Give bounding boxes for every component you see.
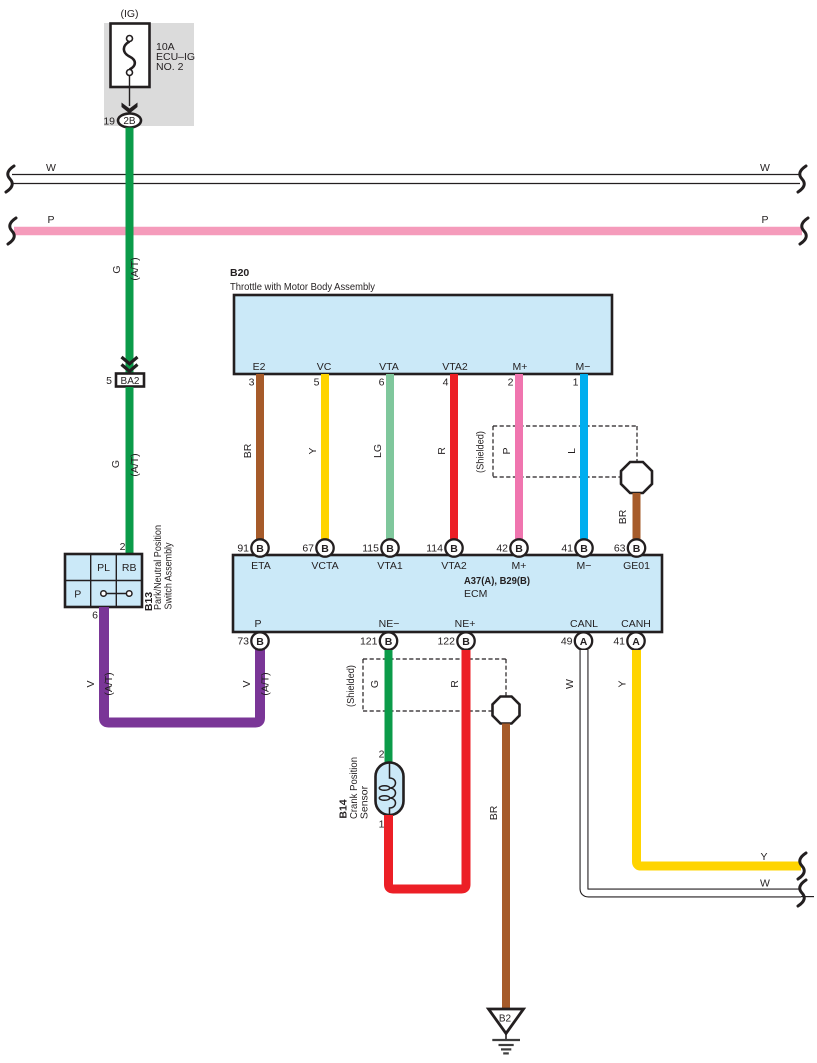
svg-text:(A/T): (A/T) (103, 672, 115, 695)
shield drain octagon (crank sensor) (493, 697, 520, 724)
svg-text:Y: Y (617, 680, 629, 687)
fuse 10A ECU-IG NO. 2 (111, 24, 196, 88)
svg-text:M−: M− (577, 560, 592, 572)
svg-text:PL: PL (97, 562, 110, 574)
svg-text:Y: Y (760, 851, 767, 863)
wire BR (E2-ETA) (242, 374, 260, 539)
wire W CANL right continuation (798, 880, 806, 906)
pin 121 NE- connector B (360, 632, 397, 649)
svg-text:VCTA: VCTA (311, 560, 338, 572)
svg-text:VTA2: VTA2 (441, 560, 467, 572)
wire L (M-) (566, 374, 584, 539)
svg-text:2: 2 (120, 541, 126, 553)
svg-text:E2: E2 (253, 361, 266, 373)
svg-text:CANL: CANL (570, 618, 598, 630)
svg-text:ETA: ETA (251, 560, 271, 572)
svg-text:B: B (386, 543, 394, 555)
pin 42 M+ connector B (496, 539, 527, 556)
pin 41 CANH connector A (613, 632, 644, 649)
svg-text:ECM: ECM (464, 588, 487, 600)
svg-text:B: B (256, 636, 264, 648)
bus P (pink) (14, 214, 802, 231)
svg-text:R: R (436, 447, 448, 455)
svg-text:A: A (580, 636, 588, 648)
wire W CANL (564, 650, 814, 897)
svg-text:P: P (501, 447, 513, 454)
fuse block shading (104, 23, 194, 126)
pin 91 ETA connector B (237, 539, 268, 556)
svg-text:NE+: NE+ (455, 618, 476, 630)
svg-text:A: A (632, 636, 640, 648)
svg-text:B20: B20 (230, 267, 249, 279)
svg-text:41: 41 (613, 636, 625, 648)
svg-text:(A/T): (A/T) (129, 257, 141, 280)
svg-text:V: V (85, 680, 97, 687)
svg-text:3: 3 (249, 377, 255, 389)
pin 49 CANL connector A (561, 632, 592, 649)
wire BR shield drain to GE01 (617, 493, 637, 539)
pin 67 VCTA connector B (302, 539, 333, 556)
svg-text:73: 73 (237, 636, 249, 648)
svg-text:GE01: GE01 (623, 560, 650, 572)
svg-text:W: W (760, 162, 770, 174)
svg-text:Throttle with Motor Body Assem: Throttle with Motor Body Assembly (230, 281, 376, 293)
svg-text:115: 115 (362, 543, 379, 555)
svg-text:M−: M− (576, 361, 591, 373)
wire LG (VTA-VTA1) (372, 374, 390, 539)
B20 pin numbers (249, 377, 579, 389)
svg-text:(Shielded): (Shielded) (345, 665, 357, 707)
svg-text:5: 5 (106, 375, 112, 387)
svg-text:49: 49 (561, 636, 573, 648)
shielded cable box (crank sensor) (345, 659, 506, 711)
ground B2 (489, 1009, 524, 1053)
svg-text:G: G (111, 265, 123, 273)
svg-text:NE−: NE− (379, 618, 400, 630)
svg-text:VTA1: VTA1 (377, 560, 403, 572)
bus W (top) (12, 162, 800, 184)
svg-text:91: 91 (237, 543, 249, 555)
svg-text:B: B (633, 543, 641, 555)
svg-text:114: 114 (426, 543, 443, 555)
wire R (VTA2-VTA2) (436, 374, 454, 539)
pin 63 GE01 connector B (614, 539, 645, 556)
svg-text:BR: BR (488, 805, 500, 820)
svg-text:P: P (254, 618, 261, 630)
wire Y CANH right continuation (798, 853, 806, 879)
wire V (A/T) purple from B13 pin 6 to ECM pin 73 (85, 607, 272, 723)
svg-text:P: P (47, 214, 54, 226)
svg-text:CANH: CANH (621, 618, 651, 630)
svg-text:Switch Assembly: Switch Assembly (163, 542, 175, 610)
svg-text:W: W (46, 162, 56, 174)
B13 labels (143, 525, 175, 611)
svg-text:W: W (564, 679, 576, 689)
svg-text:122: 122 (437, 636, 455, 648)
svg-text:VTA: VTA (379, 361, 399, 373)
svg-text:V: V (241, 680, 253, 687)
svg-text:(A/T): (A/T) (260, 672, 272, 695)
connector BA2 pin 5 (106, 374, 144, 388)
svg-text:P: P (74, 589, 81, 601)
svg-text:B2: B2 (499, 1014, 512, 1025)
svg-text:B: B (462, 636, 470, 648)
svg-text:5: 5 (314, 377, 320, 389)
bus P left continuation (8, 218, 16, 244)
B20 Throttle with Motor Body Assembly (230, 267, 612, 374)
B13 switch contacts (101, 591, 132, 597)
svg-text:VC: VC (317, 361, 332, 373)
svg-text:4: 4 (443, 377, 449, 389)
shield drain octagon (621, 462, 652, 493)
svg-text:BR: BR (242, 443, 254, 458)
connector 2B pin 19 (103, 114, 141, 128)
shielded cable box (M+/M-) (475, 426, 638, 477)
svg-text:19: 19 (103, 116, 115, 128)
svg-text:B: B (385, 636, 393, 648)
svg-text:63: 63 (614, 543, 626, 555)
svg-text:6: 6 (92, 610, 98, 622)
svg-text:42: 42 (496, 543, 508, 555)
svg-text:B: B (321, 543, 329, 555)
pin 114 VTA2 connector B (426, 539, 462, 556)
bus W right continuation (798, 166, 806, 192)
ECM box A37(A), B29(B) (233, 555, 662, 632)
svg-text:6: 6 (379, 377, 385, 389)
svg-text:1: 1 (379, 819, 385, 831)
wire BR from octagon to ground (488, 724, 506, 1010)
svg-text:A37(A), B29(B): A37(A), B29(B) (464, 575, 530, 587)
svg-text:RB: RB (122, 562, 137, 574)
svg-text:M+: M+ (512, 560, 527, 572)
svg-text:M+: M+ (513, 361, 528, 373)
wire Y (VC-VCTA) (307, 374, 325, 539)
svg-text:VTA2: VTA2 (442, 361, 468, 373)
svg-text:Y: Y (307, 447, 319, 454)
wire R NE+ from crank sensor (379, 650, 466, 889)
svg-text:2B: 2B (123, 116, 136, 127)
svg-text:2: 2 (379, 749, 385, 761)
wire G from 2B to BA2 (126, 128, 134, 375)
arrow chevrons above BA2 (122, 357, 138, 371)
svg-text:B: B (515, 543, 523, 555)
svg-text:L: L (566, 448, 578, 454)
svg-text:121: 121 (360, 636, 378, 648)
pin 122 NE+ connector B (437, 632, 474, 649)
svg-text:B: B (580, 543, 588, 555)
svg-text:P: P (761, 214, 768, 226)
svg-text:W: W (760, 878, 770, 890)
svg-text:41: 41 (561, 543, 573, 555)
svg-text:67: 67 (302, 543, 314, 555)
wire Y CANH (617, 650, 802, 866)
svg-text:(Shielded): (Shielded) (475, 431, 487, 473)
B13 Park/Neutral Position Switch Assembly (65, 554, 142, 607)
pin 73 P connector B (237, 632, 268, 649)
wire P (M+) (501, 374, 519, 539)
svg-text:BA2: BA2 (121, 376, 140, 387)
svg-text:B: B (256, 543, 264, 555)
bus P right continuation (800, 218, 808, 244)
svg-text:B: B (450, 543, 458, 555)
svg-text:G: G (110, 460, 122, 468)
wire G NE- to crank sensor (369, 650, 389, 762)
wire G (A/T) from BA2 to B13 (110, 387, 141, 554)
svg-text:Sensor: Sensor (359, 785, 371, 819)
svg-text:G: G (369, 680, 381, 688)
pin 41 M- connector B (561, 539, 592, 556)
svg-text:1: 1 (573, 377, 579, 389)
svg-text:(A/T): (A/T) (129, 453, 141, 476)
crank position sensor B14 (338, 757, 404, 819)
wire from fuse to connector 2B with arrow (122, 76, 138, 114)
svg-text:(IG): (IG) (120, 8, 138, 20)
svg-text:R: R (449, 680, 461, 688)
svg-text:NO. 2: NO. 2 (156, 61, 184, 73)
svg-text:BR: BR (617, 509, 629, 524)
pin 115 VTA1 connector B (362, 539, 398, 556)
svg-text:LG: LG (372, 444, 384, 458)
bus W left continuation (6, 166, 14, 192)
svg-text:2: 2 (508, 377, 514, 389)
